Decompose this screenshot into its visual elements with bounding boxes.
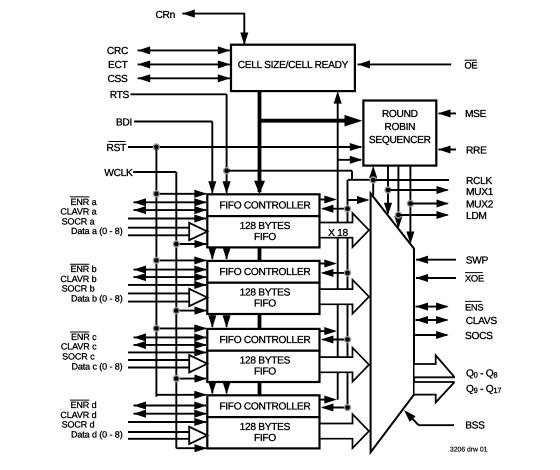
svg-text:Data a (0 - 8): Data a (0 - 8) xyxy=(71,226,123,236)
svg-text:CLAVR c: CLAVR c xyxy=(61,342,97,352)
fifo controller a block xyxy=(207,194,319,216)
wire WCLK vertical bus xyxy=(175,172,177,448)
bus arrow Q9-Q17 output xyxy=(415,382,455,402)
wire Data c lower xyxy=(128,367,189,369)
wire thick bus horizontal to round robin xyxy=(260,119,353,123)
arrowhead RST branch into controller d xyxy=(194,391,207,399)
label Q0 - Q8 xyxy=(466,369,497,380)
label SOCR b xyxy=(62,284,95,294)
label FIFO CONTROLLER d xyxy=(219,402,310,413)
wire thick bus segment gap d xyxy=(258,381,262,396)
svg-text:CLAVR b: CLAVR b xyxy=(60,274,96,284)
label CRC xyxy=(107,46,128,57)
svg-text:ENR c: ENR c xyxy=(71,332,97,342)
arrowhead RST branch into controller c xyxy=(194,324,207,332)
wire OE xyxy=(358,63,452,65)
label Data b (0 - 8) xyxy=(71,294,123,304)
label RTS xyxy=(110,90,130,101)
arrowhead controller b input xyxy=(321,269,334,277)
arrowhead CLAVR b right into controller xyxy=(194,273,207,281)
wire SOCR d xyxy=(128,421,206,423)
wire WCLK horizontal xyxy=(133,171,176,173)
label RRE xyxy=(466,145,487,156)
svg-text:RCLK: RCLK xyxy=(466,176,492,187)
arrowhead SOCR c into fifo xyxy=(194,348,207,356)
arrowhead MSE into round robin xyxy=(438,109,451,117)
node WCLK junction row b xyxy=(173,308,179,314)
data input buffer triangle c xyxy=(189,355,207,372)
svg-text:MUX1: MUX1 xyxy=(466,187,494,198)
svg-text:FIFO: FIFO xyxy=(254,299,276,310)
wire WCLK branch row a xyxy=(176,243,206,245)
arrowhead SOCR d into fifo xyxy=(194,418,207,426)
wire RTS vertical segment gap c xyxy=(226,313,228,327)
svg-text:XOE: XOE xyxy=(465,274,484,284)
label X 18 xyxy=(328,228,348,239)
svg-text:SOCR b: SOCR b xyxy=(62,284,95,294)
node line B junction row b xyxy=(345,270,351,276)
arrowhead controller a input xyxy=(321,205,334,213)
svg-text:CLAVR d: CLAVR d xyxy=(60,410,96,420)
wire BDI vertical bus xyxy=(211,122,213,193)
label 128 BYTES FIFO d xyxy=(240,422,291,444)
arrowhead controller b output xyxy=(324,259,337,267)
svg-text:CELL SIZE/CELL READY: CELL SIZE/CELL READY xyxy=(238,60,349,71)
fifo controller c block xyxy=(207,329,319,351)
arrowhead ECT left xyxy=(138,60,151,68)
label Data c (0 - 8) xyxy=(71,361,122,371)
wire RST horizontal to round robin xyxy=(128,146,361,148)
svg-text:MSE: MSE xyxy=(465,109,487,120)
wire thick bus segment gap b xyxy=(258,246,262,262)
wire RR output 1 vertical xyxy=(372,170,374,196)
arrowhead ENR c right into controller xyxy=(194,333,207,341)
cell size/cell ready block xyxy=(231,45,355,91)
arrowhead ENR b right into controller xyxy=(194,266,207,274)
arrowhead BDI into controller b top xyxy=(208,247,216,260)
node RST branch junction xyxy=(153,144,159,150)
wire RST branch row d xyxy=(156,394,205,396)
arrowhead CRC left xyxy=(138,46,151,54)
wire BSS horizontal xyxy=(419,424,454,426)
wire RST branch row a xyxy=(156,193,205,195)
svg-text:SOCS: SOCS xyxy=(465,331,493,342)
svg-text:Data c (0 - 8): Data c (0 - 8) xyxy=(71,361,122,371)
label ECT xyxy=(108,60,128,71)
node RST junction row c xyxy=(153,325,159,331)
arrowhead controller c output xyxy=(324,327,337,335)
node RTS to RCLK branch junction xyxy=(224,168,230,174)
svg-text:WCLK: WCLK xyxy=(104,168,133,179)
wire Data d upper xyxy=(128,431,189,433)
wire line B branch to output mux xyxy=(348,199,368,201)
arrowhead SWP into mux xyxy=(416,256,429,264)
label SOCR d xyxy=(62,420,95,430)
svg-text:SWP: SWP xyxy=(466,255,489,266)
fifo controller d block xyxy=(207,395,319,417)
svg-text:ENS: ENS xyxy=(465,302,483,312)
svg-text:FIFO: FIFO xyxy=(254,433,276,444)
label ENS xyxy=(465,301,483,312)
wire Data b upper xyxy=(128,292,189,294)
arrowhead RTS into controller c top xyxy=(223,315,231,328)
wire RCLK line xyxy=(373,179,449,181)
wire ENR a bidirectional xyxy=(134,201,207,203)
label 128 BYTES FIFO c xyxy=(240,356,291,378)
label SOCR a xyxy=(62,216,95,226)
svg-text:FIFO: FIFO xyxy=(254,367,276,378)
svg-text:FIFO CONTROLLER: FIFO CONTROLLER xyxy=(219,267,310,278)
arrowhead RST into round robin box xyxy=(350,143,363,151)
svg-text:Q0 - Q8: Q0 - Q8 xyxy=(466,369,497,380)
svg-text:SOCR d: SOCR d xyxy=(62,420,95,430)
wire controller a input from line B xyxy=(323,208,348,210)
svg-text:BSS: BSS xyxy=(465,421,485,432)
svg-text:LDM: LDM xyxy=(466,211,487,222)
wire CLAVR b bidirectional xyxy=(134,276,207,278)
bus arrow x18 fifo c to mux xyxy=(321,348,370,382)
svg-text:FIFO CONTROLLER: FIFO CONTROLLER xyxy=(219,402,310,413)
wire controller d input from line B xyxy=(323,407,348,409)
wire SWP xyxy=(416,259,456,261)
arrowhead ENR b left xyxy=(134,266,147,274)
svg-text:SOCR a: SOCR a xyxy=(62,216,95,226)
node line B junction row c xyxy=(345,337,351,343)
label WCLK xyxy=(104,168,133,179)
arrowhead CRC right into cell box xyxy=(218,46,231,54)
svg-text:MUX2: MUX2 xyxy=(466,200,494,211)
svg-text:FIFO CONTROLLER: FIFO CONTROLLER xyxy=(219,335,310,346)
label MSE xyxy=(465,109,487,120)
arrowhead RRE into round robin xyxy=(438,145,451,153)
label CLAVR a xyxy=(60,207,96,217)
data input buffer triangle b xyxy=(189,289,207,306)
label CLAVS xyxy=(466,316,498,327)
svg-text:Data b (0 - 8): Data b (0 - 8) xyxy=(71,294,123,304)
128 bytes fifo a block xyxy=(207,216,319,247)
svg-text:CRn: CRn xyxy=(156,10,175,21)
wire RCLK feed horizontal upper xyxy=(227,170,352,172)
wire CRn horizontal xyxy=(182,13,244,15)
label MUX2 xyxy=(466,200,494,211)
arrowhead CRn left xyxy=(182,10,195,18)
wire CLAVR a bidirectional xyxy=(134,209,207,211)
wire RTS vertical segment gap d xyxy=(226,381,228,393)
arrowhead ENR a right into controller xyxy=(194,198,207,206)
wire Data c upper xyxy=(128,359,189,361)
svg-text:128 BYTES: 128 BYTES xyxy=(240,356,291,367)
arrowhead CLAVR a left xyxy=(134,206,147,214)
node WCLK junction row a xyxy=(173,241,179,247)
arrowhead SOCR b into fifo xyxy=(194,281,207,289)
data input buffer triangle d xyxy=(189,427,207,444)
label SOCS xyxy=(465,331,493,342)
arrowhead LDM xyxy=(437,211,450,219)
label BSS xyxy=(465,421,485,432)
output mux xyxy=(371,193,414,452)
wire ENR d bidirectional xyxy=(134,405,207,407)
label Q9 - Q17 xyxy=(466,384,501,395)
label ENR c xyxy=(70,332,97,342)
arrowhead line A up into cell box bottom xyxy=(334,91,342,104)
wire ENS bidirectional xyxy=(416,306,448,308)
wire RR output 3 vertical xyxy=(397,166,399,227)
label SOCR c xyxy=(62,351,95,361)
wire RST branch row b xyxy=(156,259,205,261)
wire WCLK branch row d xyxy=(176,447,206,449)
arrowhead RR output 2 into mux slant xyxy=(384,203,392,216)
bus arrow x18 fifo d to mux xyxy=(321,414,370,448)
label FIFO CONTROLLER c xyxy=(219,335,310,346)
arrowhead ENS right xyxy=(436,303,449,311)
wire RCLK feed horizontal lower xyxy=(348,179,373,181)
128 bytes fifo d block xyxy=(207,417,319,448)
arrowhead CLAVR c left xyxy=(134,341,147,349)
arrowhead BDI into controller d top xyxy=(208,382,216,395)
arrowhead WCLK branch into fifo b xyxy=(195,307,208,315)
node WCLK junction row c xyxy=(173,376,179,382)
arrowhead controller a output xyxy=(324,195,337,203)
arrowhead line A branch into round robin box xyxy=(350,156,363,164)
wire CLAVS bidirectional xyxy=(416,319,448,321)
arrowhead SOCS xyxy=(436,331,449,339)
svg-text:ENR d: ENR d xyxy=(70,400,96,410)
wire LDM line xyxy=(398,214,447,216)
arrowhead RTS into controller b top xyxy=(223,247,231,260)
label CELL SIZE/CELL READY xyxy=(238,60,349,71)
arrowhead CLAVS left into mux xyxy=(416,316,429,324)
128 bytes fifo b block xyxy=(207,283,319,314)
label ENR a xyxy=(70,197,97,207)
wire thick bus segment gap c xyxy=(258,313,262,330)
arrowhead WCLK branch into fifo c xyxy=(195,375,208,383)
wire ECT bidirectional xyxy=(138,63,230,65)
wire RTS horizontal xyxy=(131,93,227,95)
svg-text:ENR b: ENR b xyxy=(70,264,96,274)
wire RR output 4 vertical xyxy=(409,166,411,242)
wire RCLK feed vertical xyxy=(351,171,353,180)
svg-text:BDI: BDI xyxy=(116,117,132,128)
svg-text:128 BYTES: 128 BYTES xyxy=(240,422,291,433)
node line B junction row a xyxy=(345,206,351,212)
bus arrow x18 fifo a to mux xyxy=(321,213,370,247)
svg-text:128 BYTES: 128 BYTES xyxy=(240,288,291,299)
arrowhead BDI into controller c top xyxy=(208,315,216,328)
arrowhead CRn into cell box top xyxy=(240,33,248,46)
arrowhead CLAVR c right into controller xyxy=(194,341,207,349)
label ROUND ROBIN SEQUENCER xyxy=(369,109,431,146)
label 128 BYTES FIFO a xyxy=(240,221,291,243)
label Data a (0 - 8) xyxy=(71,226,123,236)
arrowhead RST branch into controller a xyxy=(194,190,207,198)
arrowhead CSS right into cell box xyxy=(218,74,231,82)
svg-text:FIFO CONTROLLER: FIFO CONTROLLER xyxy=(219,201,310,212)
svg-text:ROUND: ROUND xyxy=(382,109,418,120)
svg-text:CLAVR a: CLAVR a xyxy=(60,207,96,217)
arrowhead WCLK branch into fifo d xyxy=(195,444,208,452)
wire RR output 2 vertical xyxy=(387,166,389,213)
128 bytes fifo c block xyxy=(207,351,319,382)
svg-text:SOCR c: SOCR c xyxy=(62,351,95,361)
wire line A vertical xyxy=(337,95,339,400)
wire Data b lower xyxy=(128,301,189,303)
arrowhead ENR d left xyxy=(134,401,147,409)
wire BDI vertical segment gap b xyxy=(211,246,213,259)
arrowhead controller d output xyxy=(324,396,337,404)
wire Data d lower xyxy=(128,438,189,440)
svg-text:ECT: ECT xyxy=(108,60,128,71)
wire line B vertical xyxy=(347,180,349,408)
wire CRC bidirectional xyxy=(138,49,230,51)
wire CLAVR c bidirectional xyxy=(134,344,207,346)
arrowhead RST branch into controller b xyxy=(194,256,207,264)
wire MSE xyxy=(439,112,457,114)
wire Data a lower xyxy=(128,234,189,236)
label CLAVR b xyxy=(60,274,96,284)
node LDM junction xyxy=(395,212,401,218)
node line B junction row d xyxy=(345,405,351,411)
label 128 BYTES FIFO b xyxy=(240,288,291,310)
wire CRn vertical drop xyxy=(243,13,245,46)
label BDI xyxy=(116,117,132,128)
svg-text:ROBIN: ROBIN xyxy=(384,122,415,133)
wire BSS diagonal xyxy=(407,413,419,426)
label LDM xyxy=(466,211,487,222)
arrowhead CLAVR d left xyxy=(134,410,147,418)
svg-text:CLAVS: CLAVS xyxy=(466,316,498,327)
wire SOCR c xyxy=(128,351,206,353)
svg-text:OE: OE xyxy=(465,61,478,71)
arrowhead RR output 3 into mux slant xyxy=(394,216,402,229)
wire WCLK branch row c xyxy=(176,378,206,380)
wire Data a upper xyxy=(128,227,189,229)
svg-text:CRC: CRC xyxy=(107,46,128,57)
label RST xyxy=(107,142,127,154)
arrowhead ENR a left xyxy=(134,198,147,206)
wire SOCS xyxy=(414,334,447,336)
label CLAVR d xyxy=(60,410,96,420)
wire controller b input from line B xyxy=(323,272,348,274)
wire CLAVR d bidirectional xyxy=(134,413,207,415)
wire controller d output to line A xyxy=(320,399,335,401)
label XOE xyxy=(465,273,484,284)
wire RRE xyxy=(439,149,457,151)
svg-text:128 BYTES: 128 BYTES xyxy=(240,221,291,232)
label FIFO CONTROLLER a xyxy=(219,201,310,212)
label RCLK xyxy=(466,176,492,187)
arrowhead controller d input xyxy=(321,403,334,411)
node RST junction row a xyxy=(153,191,159,197)
svg-text:3206 drw 01: 3206 drw 01 xyxy=(450,447,488,454)
wire controller c input from line B xyxy=(323,339,348,341)
bus arrow x18 fifo b to mux xyxy=(321,280,370,314)
arrowhead line B branch into output mux xyxy=(357,196,370,204)
wire MUX2 line xyxy=(410,203,447,205)
wire BDI vertical segment gap c xyxy=(211,313,213,327)
wire BDI vertical segment gap d xyxy=(211,381,213,393)
svg-text:ENR a: ENR a xyxy=(70,197,96,207)
arrowhead MUX1 xyxy=(437,186,450,194)
wire WCLK branch row b xyxy=(176,310,206,312)
arrowhead OE into cell box xyxy=(358,60,371,68)
arrowhead BSS into mux bottom slant xyxy=(404,410,416,422)
label ENR d xyxy=(70,400,97,410)
svg-text:FIFO: FIFO xyxy=(254,232,276,243)
arrowhead CLAVR d right into controller xyxy=(194,410,207,418)
arrowhead CLAVR a right into controller xyxy=(194,206,207,214)
round robin sequencer block xyxy=(363,101,436,166)
arrowhead thick bus into controller a top xyxy=(254,181,265,194)
label Data d (0 - 8) xyxy=(71,429,123,439)
svg-text:SEQUENCER: SEQUENCER xyxy=(369,135,431,146)
arrowhead RTS into controller a top xyxy=(223,181,231,194)
label OE xyxy=(465,60,478,70)
arrowhead WCLK branch into fifo a xyxy=(195,240,208,248)
svg-text:Data d (0 - 8): Data d (0 - 8) xyxy=(71,429,123,439)
arrowhead CLAVS right xyxy=(436,316,449,324)
arrowhead MUX2 xyxy=(437,199,450,207)
arrowhead ENR c left xyxy=(134,333,147,341)
arrowhead ECT right into cell box xyxy=(218,60,231,68)
wire ENR b bidirectional xyxy=(134,269,207,271)
wire XOE xyxy=(416,277,456,279)
label FIFO CONTROLLER b xyxy=(219,267,310,278)
wire controller a output to line A xyxy=(320,199,335,201)
arrowhead XOE into mux xyxy=(416,274,429,282)
wire RST vertical bus xyxy=(155,147,157,397)
fifo controller b block xyxy=(207,261,319,283)
label CLAVR c xyxy=(61,342,97,352)
wire BDI horizontal xyxy=(134,121,212,123)
label CSS xyxy=(107,74,128,85)
svg-text:RTS: RTS xyxy=(110,90,130,101)
wire controller b output to line A xyxy=(320,263,335,265)
label MUX1 xyxy=(466,187,494,198)
wire RTS vertical bus xyxy=(226,94,228,193)
wire ENR c bidirectional xyxy=(134,336,207,338)
wire MUX1 line xyxy=(388,189,448,191)
arrowhead RR output 4 into mux slant xyxy=(406,232,414,245)
bus arrow Q0-Q8 output xyxy=(415,355,455,377)
wire thick control bus vertical xyxy=(258,90,262,192)
wire line A branch to round robin xyxy=(338,159,362,161)
node RCLK junction xyxy=(370,177,376,183)
arrowhead thick bus into round robin box xyxy=(345,115,363,127)
node MUX1 junction xyxy=(385,187,391,193)
arrowhead ENR d right into controller xyxy=(194,401,207,409)
wire controller c output to line A xyxy=(320,330,335,332)
arrowhead CLAVR b left xyxy=(134,273,147,281)
label 3206 drw 01 xyxy=(450,447,488,454)
wire RTS vertical segment gap b xyxy=(226,246,228,259)
arrowhead BDI into controller a top xyxy=(208,181,216,194)
node RST junction row b xyxy=(153,257,159,263)
svg-text:RRE: RRE xyxy=(466,145,487,156)
node MUX2 junction xyxy=(407,201,413,207)
label SWP xyxy=(466,255,489,266)
wire SOCR a xyxy=(128,218,206,220)
svg-text:CSS: CSS xyxy=(107,74,128,85)
wire CSS bidirectional xyxy=(138,77,230,79)
arrowhead RTS into controller d top xyxy=(223,382,231,395)
data input buffer triangle a xyxy=(189,223,207,240)
arrowhead ENS left into mux xyxy=(416,303,429,311)
svg-text:Q9 - Q17: Q9 - Q17 xyxy=(466,384,501,395)
svg-text:RST: RST xyxy=(107,143,127,154)
arrowhead SOCR a into fifo xyxy=(194,214,207,222)
label ENR b xyxy=(70,264,97,274)
svg-text:X 18: X 18 xyxy=(328,228,348,239)
